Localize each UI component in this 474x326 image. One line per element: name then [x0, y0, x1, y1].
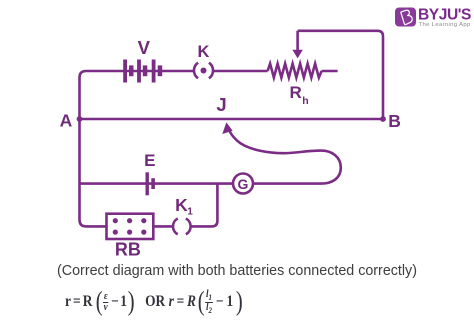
battery V short plate 3: [158, 65, 163, 76]
svg-text:J: J: [216, 94, 226, 115]
resistance box RB rectangle: [107, 214, 154, 239]
wire rheostat tap to node B (top right): [298, 31, 383, 119]
wire galvanometer to jockey S-curve: [228, 128, 340, 183]
svg-text:B: B: [388, 111, 401, 131]
svg-text:A: A: [60, 110, 73, 130]
battery V long plate 3: [152, 60, 156, 83]
label RB: [115, 240, 141, 260]
wire cell E branch from left vertical to galvanometer: [80, 182, 234, 185]
label A: [60, 110, 73, 130]
svg-text:R: R: [290, 83, 302, 102]
wire RB box to key K1: [153, 225, 173, 228]
svg-text:K: K: [198, 43, 210, 61]
label Rh: [290, 83, 309, 107]
label K: [198, 43, 210, 61]
wire rheostat right stub: [322, 70, 338, 73]
node B dot: [380, 116, 386, 122]
jockey arrowhead at J: [222, 122, 232, 134]
key K circle: [194, 63, 213, 79]
formula line: [65, 287, 243, 317]
key K1 circle: [173, 219, 191, 235]
label V: [138, 37, 151, 58]
resistance box RB plug dots: [113, 218, 147, 235]
svg-text:h: h: [302, 95, 308, 107]
battery V short plate 2: [143, 65, 148, 76]
galvanometer G circle: [233, 174, 253, 194]
battery V long plate 2: [137, 60, 141, 83]
label J: [216, 94, 226, 115]
svg-text:E: E: [144, 151, 155, 170]
battery V short plate 1: [129, 65, 134, 76]
wire junction vertical RB branch up to E-G wire: [191, 184, 218, 227]
svg-text:The Learning App: The Learning App: [419, 22, 471, 28]
caption text: [0, 263, 474, 279]
wire battery V to key K: [125, 70, 194, 73]
rheostat slider arrowhead: [292, 50, 302, 59]
rheostat slider arrow stem: [296, 31, 299, 51]
svg-text:1: 1: [187, 207, 193, 218]
cell E long plate: [146, 172, 149, 195]
label K1: [175, 195, 193, 218]
wire left vertical with top corner to battery and bottom corner to RB: [80, 71, 126, 226]
battery V long plate 1: [123, 60, 127, 83]
BYJU'S logo wordmark: [418, 7, 471, 28]
wire A to B (potentiometer wire): [80, 118, 384, 121]
BYJU'S logo icon: [395, 8, 416, 27]
key K contact dot: [201, 68, 207, 74]
node A dot: [77, 116, 83, 122]
label B: [388, 111, 401, 131]
wire key K to rheostat: [213, 70, 268, 73]
svg-text:RB: RB: [115, 240, 141, 260]
svg-text:V: V: [138, 37, 151, 58]
cell E short plate: [151, 178, 155, 189]
rheostat Rh zigzag: [268, 64, 322, 78]
label G inside galvanometer: [238, 176, 249, 192]
svg-text:G: G: [238, 176, 249, 192]
label E: [144, 151, 155, 170]
svg-text:K: K: [175, 195, 188, 215]
